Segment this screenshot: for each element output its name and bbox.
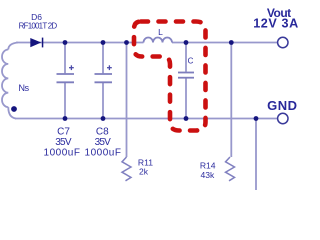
svg-text:12V 3A: 12V 3A	[253, 17, 299, 31]
svg-text:D6: D6	[31, 12, 42, 22]
svg-text:L: L	[158, 27, 163, 37]
svg-text:1000uF: 1000uF	[44, 147, 81, 158]
svg-text:C: C	[188, 56, 194, 65]
svg-text:RF1001T 2D: RF1001T 2D	[19, 21, 58, 30]
svg-text:GND: GND	[267, 98, 297, 113]
svg-text:43k: 43k	[200, 170, 215, 180]
svg-text:35V: 35V	[55, 137, 72, 148]
svg-text:Ns: Ns	[18, 83, 29, 93]
svg-text:2k: 2k	[139, 167, 149, 177]
svg-text:1000uF: 1000uF	[85, 147, 122, 158]
svg-text:35V: 35V	[95, 137, 112, 148]
